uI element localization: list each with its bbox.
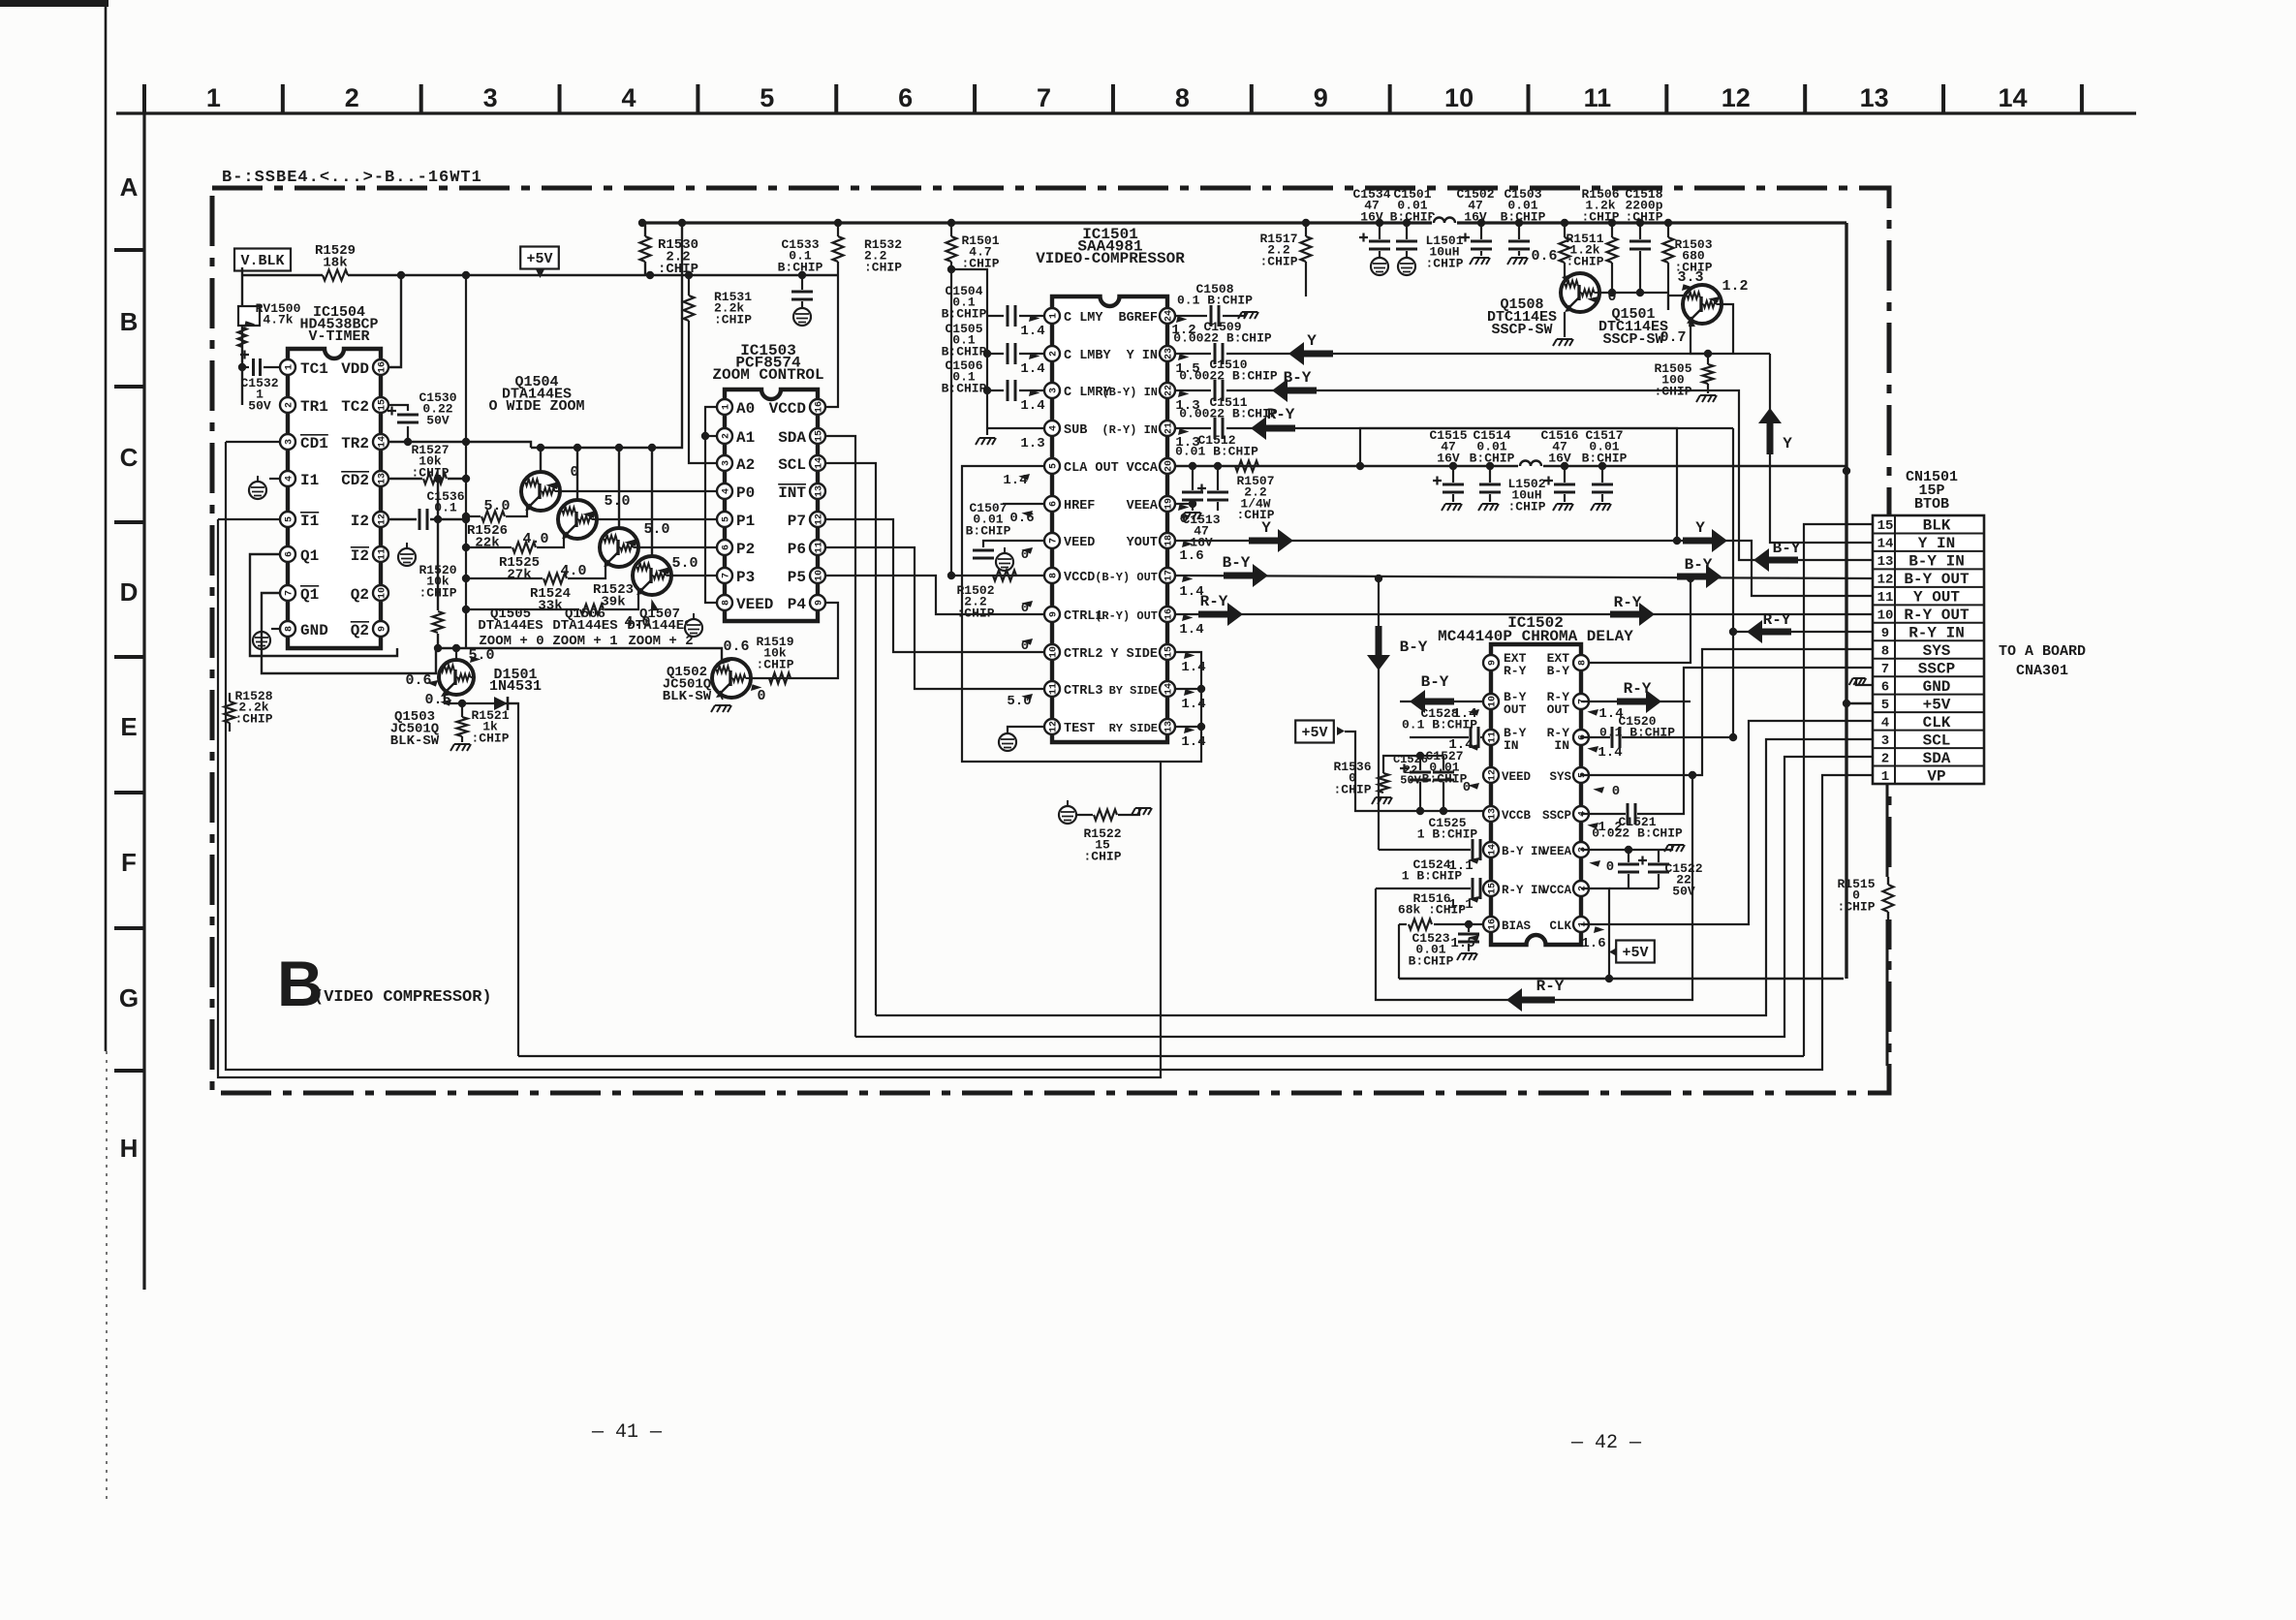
IC1501 pin 17 (B-Y) OUT: [1160, 568, 1175, 583]
svg-text:Y: Y: [1261, 519, 1271, 537]
svg-text:H: H: [120, 1134, 139, 1163]
wire VCCA pin2 to +5V: [1581, 888, 1609, 979]
svg-text:CD1: CD1: [300, 435, 328, 452]
svg-text:1N4531: 1N4531: [489, 678, 542, 695]
svg-text:0: 0: [1612, 784, 1620, 799]
svg-text:14: 14: [814, 457, 824, 469]
svg-text:R-Y OUT: R-Y OUT: [1904, 607, 1970, 624]
svg-text:VCCB: VCCB: [1502, 809, 1532, 823]
svg-text:R-Y: R-Y: [1267, 406, 1295, 423]
wire stub pin14 Y IN riser: [1770, 354, 1873, 543]
IC1501 pin 1 C LMY: [1044, 308, 1060, 324]
svg-text:10: 10: [1877, 608, 1894, 624]
wire HREF stub: [1003, 503, 1043, 505]
svg-text:0: 0: [1606, 859, 1614, 875]
svg-text:14: 14: [1877, 537, 1894, 552]
svg-text:2: 2: [1048, 351, 1059, 357]
connector CN1501 table: [1873, 515, 1984, 784]
svg-text:SCL: SCL: [1923, 732, 1951, 749]
svg-text:5: 5: [1048, 463, 1059, 469]
IC1503 pin 5 P1: [717, 512, 732, 527]
svg-text::CHIP: :CHIP: [411, 465, 449, 480]
svg-text::CHIP: :CHIP: [471, 731, 509, 745]
svg-text:0.5: 0.5: [424, 692, 450, 708]
svg-text:B: B: [120, 307, 139, 336]
IC1504 pin 4 I1: [280, 471, 295, 486]
svg-text:7: 7: [284, 590, 295, 596]
svg-text:P4: P4: [788, 596, 807, 613]
svg-text:15: 15: [1164, 646, 1174, 658]
svg-text:VIDEO-COMPRESSOR: VIDEO-COMPRESSOR: [1036, 250, 1185, 267]
svg-text:R-Y IN: R-Y IN: [1502, 884, 1545, 897]
page left border line: [105, 0, 108, 1051]
IC1503 pin 13 INT: [810, 483, 825, 499]
IC1502 pin 10 B-Y OUT: [1483, 694, 1499, 709]
svg-text:50V: 50V: [248, 398, 271, 413]
svg-text:1: 1: [206, 83, 221, 112]
svg-text:B-Y IN: B-Y IN: [1502, 845, 1545, 858]
svg-text:B-Y OUT: B-Y OUT: [1904, 571, 1970, 588]
wire Q1501 collector net: [1722, 304, 1733, 354]
svg-text:16V: 16V: [1437, 451, 1460, 465]
svg-text:SDA: SDA: [778, 429, 806, 447]
capacitor C1536: [389, 518, 417, 520]
svg-text:— 42 —: — 42 —: [1570, 1432, 1642, 1454]
inductor L1502: [1518, 458, 1543, 474]
resistor R1531: [688, 275, 690, 296]
svg-text:R-Y: R-Y: [1624, 680, 1652, 698]
resistor R1529: [323, 270, 348, 281]
resistor R1525: [466, 546, 512, 548]
svg-text:BLK-SW: BLK-SW: [390, 733, 440, 749]
svg-text::CHIP: :CHIP: [1333, 782, 1371, 796]
IC1503 pin 12 P7: [810, 512, 825, 527]
capacitor C1522 and VEEA: [1581, 849, 1659, 851]
IC1502 pin 7 R-Y OUT: [1573, 694, 1589, 709]
svg-text:0.1 B:CHIP: 0.1 B:CHIP: [1599, 726, 1675, 740]
IC1502 pin 15 R-Y IN: [1483, 881, 1499, 896]
svg-text:BTOB: BTOB: [1914, 496, 1949, 513]
IC1503 pin 1 A0: [717, 399, 732, 415]
CN1501 pin 5 +5V: [1873, 694, 1984, 696]
wire CLA OUT loop: [962, 466, 1201, 762]
svg-text:VEED: VEED: [1064, 536, 1095, 550]
svg-text:A1: A1: [736, 429, 755, 447]
resistor R1524: [466, 577, 543, 579]
wire VCCA distribution box: [1360, 428, 1677, 541]
svg-text:14: 14: [1164, 683, 1174, 695]
svg-text:— 41 —: — 41 —: [591, 1421, 663, 1444]
svg-text:(VIDEO COMPRESSOR): (VIDEO COMPRESSOR): [314, 988, 492, 1007]
IC1503 pin 11 P6: [810, 540, 825, 555]
resistor R1532: [837, 223, 839, 236]
svg-text:11: 11: [1048, 683, 1059, 695]
svg-text:8: 8: [1577, 660, 1588, 666]
svg-text:10: 10: [1048, 646, 1059, 658]
svg-text:5: 5: [1881, 698, 1889, 713]
svg-text:11: 11: [377, 548, 388, 560]
svg-text:16: 16: [1164, 608, 1174, 620]
resistor R1521: [461, 703, 463, 717]
svg-text:A0: A0: [736, 400, 755, 418]
wire bus SDA: [855, 757, 1873, 1037]
svg-text:BY SIDE: BY SIDE: [1109, 684, 1158, 698]
capacitor C1524 on B-Y IN pin14: [1379, 849, 1471, 851]
resistor R1502: [951, 575, 1043, 576]
svg-text:P6: P6: [788, 541, 806, 558]
capacitor on R-Y IN pin15: [1376, 888, 1471, 889]
svg-text::CHIP: :CHIP: [956, 606, 994, 620]
capacitor C1508: [1176, 315, 1207, 317]
svg-text:13: 13: [1164, 721, 1174, 732]
capacitor C1525: [1443, 756, 1444, 770]
resistor R1516: [1399, 923, 1407, 925]
power label +5V: [520, 247, 559, 269]
svg-text:SYS: SYS: [1923, 642, 1951, 660]
svg-text:0.6: 0.6: [723, 639, 749, 655]
wire P6 to CTRL3: [826, 547, 1045, 689]
svg-text:R-Y: R-Y: [1504, 664, 1527, 678]
wire Q1508 collector row: [1599, 292, 1668, 294]
svg-text:5.0: 5.0: [483, 498, 510, 514]
capacitor C1509 / Y in line: [1176, 353, 1211, 355]
svg-text:DTA144ES: DTA144ES: [478, 618, 543, 634]
svg-text:16: 16: [377, 361, 388, 373]
svg-text:ZOOM + 1: ZOOM + 1: [552, 634, 617, 649]
IC1501 pin 7 VEED: [1044, 533, 1060, 548]
svg-text:13: 13: [1487, 808, 1498, 820]
wire SDA net: [826, 436, 855, 1037]
svg-text:B:CHIP: B:CHIP: [1409, 953, 1454, 968]
svg-text:24: 24: [1164, 310, 1174, 322]
svg-text:8: 8: [721, 600, 731, 606]
svg-text:F: F: [121, 848, 137, 877]
resistor R1526: [466, 515, 481, 517]
IC1503 pin 10 P5: [810, 568, 825, 583]
IC1501 pin 24 BGREF: [1160, 308, 1175, 324]
IC1502 pin 1 CLK: [1573, 917, 1589, 932]
wire P7 to CTRL2: [826, 519, 1045, 652]
IC1504 pin 15 TC2: [373, 397, 388, 413]
top ruler ticks: [142, 84, 146, 113]
svg-text:12: 12: [814, 514, 824, 525]
svg-text:(R-Y) IN: (R-Y) IN: [1101, 423, 1158, 437]
svg-text:GND: GND: [1923, 678, 1951, 696]
svg-text:Y IN: Y IN: [1127, 349, 1158, 363]
svg-text:11: 11: [1584, 83, 1612, 112]
svg-text::CHIP: :CHIP: [1581, 209, 1619, 224]
IC1502 pin 2 VCCA: [1573, 881, 1589, 896]
svg-text::CHIP: :CHIP: [1083, 849, 1121, 863]
svg-text:B-:SSBE4.<...>-B..-16WT1: B-:SSBE4.<...>-B..-16WT1: [222, 169, 482, 187]
svg-text:Q1: Q1: [300, 586, 319, 604]
IC1501 pin 16 (R-Y) OUT: [1160, 607, 1175, 622]
svg-text:SDA: SDA: [1923, 750, 1951, 767]
IC1501 pin 9 CTRL1: [1044, 607, 1060, 622]
svg-text:1 B:CHIP: 1 B:CHIP: [1417, 827, 1478, 842]
svg-text:5: 5: [760, 83, 774, 112]
capacitor C1532: [242, 366, 249, 368]
svg-text:7: 7: [1881, 662, 1889, 677]
svg-text::CHIP: :CHIP: [714, 312, 752, 327]
svg-text:CLK: CLK: [1549, 919, 1571, 933]
wire +5V into IC1503 region: [689, 274, 838, 276]
svg-text:18: 18: [1164, 535, 1174, 546]
svg-text:1.4: 1.4: [1179, 622, 1203, 638]
transistor Q1505: [576, 448, 578, 500]
svg-text:1.4: 1.4: [1598, 706, 1623, 722]
svg-text:IN: IN: [1504, 738, 1519, 753]
svg-text:0: 0: [1463, 780, 1471, 795]
IC1503 pin 9 P4: [810, 595, 825, 610]
svg-text:TC1: TC1: [300, 360, 328, 378]
signal arrow Y out: [1249, 529, 1293, 552]
svg-text:10: 10: [1487, 696, 1498, 707]
IC1504 pin 14 TR2: [373, 434, 388, 450]
IC1503 pin 15 SDA: [810, 428, 825, 444]
IC1501 pin 2 C LMBY: [1044, 346, 1060, 361]
svg-text:4.7k: 4.7k: [263, 313, 293, 327]
svg-text:TR2: TR2: [341, 435, 369, 452]
capacitor C1507: [983, 541, 1043, 547]
wire bus SCL: [876, 739, 1873, 1015]
capacitor C1516: [1564, 466, 1566, 483]
IC1503 pin 2 A1: [717, 428, 732, 444]
svg-text:B:CHIP: B:CHIP: [942, 306, 987, 321]
svg-text:12: 12: [1877, 573, 1894, 588]
CN1501 pin 2 SDA: [1873, 747, 1984, 749]
IC1503 pin 4 P0: [717, 483, 732, 499]
IC1502 pin 14 B-Y IN: [1483, 842, 1499, 857]
svg-text:9: 9: [814, 600, 824, 606]
svg-text:1: 1: [284, 364, 295, 370]
capacitor C1511 / R-Y in line: [1176, 427, 1211, 429]
signal arrow B-Y out of IC1502: [1400, 701, 1483, 702]
svg-text:Y: Y: [1783, 435, 1792, 452]
svg-text:SYS: SYS: [1549, 770, 1571, 784]
svg-text:3: 3: [721, 460, 731, 466]
svg-text::CHIP: :CHIP: [1425, 256, 1463, 270]
svg-text:1.4: 1.4: [1181, 660, 1205, 675]
resistor R1506: [1611, 223, 1613, 237]
svg-text:0.1 B:CHIP: 0.1 B:CHIP: [1177, 294, 1253, 308]
svg-text::CHIP: :CHIP: [1566, 254, 1603, 268]
wire P5 to CTRL1: [826, 576, 1045, 614]
svg-text:B-Y: B-Y: [1223, 554, 1251, 572]
schematic dash-dot frame: [212, 188, 1889, 1093]
svg-text:GND: GND: [300, 622, 328, 639]
svg-text:9: 9: [1881, 626, 1889, 641]
svg-text:RY SIDE: RY SIDE: [1109, 722, 1158, 735]
IC1503 pin 6 P2: [717, 540, 732, 555]
svg-text:Y: Y: [1307, 332, 1317, 350]
svg-text:9: 9: [1487, 660, 1498, 666]
svg-text:+5V: +5V: [1301, 725, 1327, 741]
svg-text:11: 11: [1877, 590, 1894, 606]
svg-text:3: 3: [284, 439, 295, 445]
IC1504 pin 1 TC1: [280, 359, 295, 375]
resistor R1507: [1235, 461, 1258, 472]
svg-text:D: D: [120, 577, 139, 607]
svg-text:3.3: 3.3: [1677, 269, 1703, 286]
wire SYS net: [1581, 774, 1692, 776]
svg-text:I1: I1: [300, 472, 319, 489]
svg-text:12: 12: [377, 514, 388, 525]
left ruler line: [142, 84, 145, 1290]
IC1502 pin 3 VEEA: [1573, 842, 1589, 857]
IC1501 pin 5 CLA OUT: [1044, 458, 1060, 474]
capacitor C1521 on SSCP: [1581, 813, 1626, 815]
wire +5V top rail: [642, 221, 1846, 224]
svg-text:VEEA: VEEA: [1127, 499, 1159, 514]
capacitor C1510 / B-Y in line: [1176, 389, 1211, 391]
svg-text:R-Y: R-Y: [1614, 594, 1642, 611]
svg-text:TC2: TC2: [341, 398, 369, 416]
svg-text:13: 13: [814, 485, 824, 497]
svg-text:B:CHIP: B:CHIP: [966, 523, 1011, 538]
svg-text:1.4: 1.4: [1181, 734, 1205, 750]
IC1501 pin 10 CTRL2: [1044, 644, 1060, 660]
svg-text:(R-Y) OUT: (R-Y) OUT: [1095, 609, 1158, 623]
CN1501 pin 1 VP: [1873, 765, 1984, 767]
wire SCL net: [826, 463, 876, 1015]
svg-text:1.3: 1.3: [1020, 436, 1044, 452]
svg-text:12: 12: [1722, 83, 1751, 112]
IC1502 pin 8 EXT B-Y: [1573, 655, 1589, 670]
svg-text::CHIP: :CHIP: [1507, 499, 1545, 514]
IC1502 pin 4 SSCP: [1573, 806, 1589, 822]
capacitor C1518: [1639, 223, 1641, 239]
svg-text:I2: I2: [351, 547, 369, 565]
svg-text:7: 7: [1048, 538, 1059, 544]
signal arrow R-Y out 2: [1610, 603, 1655, 626]
wire R-Y IN vertical continues: [1732, 632, 1734, 737]
svg-text:R-Y: R-Y: [1200, 593, 1228, 610]
wire EXT B-Y pin8 up: [1590, 578, 1691, 663]
wire IC1504 pin7 Q1bar loop: [262, 593, 436, 673]
capacitor C1517: [1601, 466, 1603, 483]
wire YOUT: [1176, 541, 1873, 596]
svg-text:10: 10: [814, 570, 824, 581]
svg-text:10: 10: [1444, 83, 1474, 112]
svg-text:8: 8: [1175, 83, 1190, 112]
svg-text:17: 17: [1164, 570, 1174, 581]
IC1502 pin 11 B-Y IN: [1483, 730, 1499, 745]
svg-text:50V: 50V: [1672, 884, 1695, 898]
transistor Q1507: [651, 448, 653, 556]
svg-text:P1: P1: [736, 513, 755, 530]
CN1501 pin 13 B-Y IN: [1873, 550, 1984, 552]
resistor R1505: [1707, 354, 1709, 364]
svg-text:HREF: HREF: [1064, 499, 1095, 514]
svg-text:9: 9: [1314, 83, 1328, 112]
svg-text:8: 8: [284, 626, 295, 632]
svg-text:VCCD: VCCD: [769, 400, 806, 418]
signal arrow Y up: [1758, 408, 1782, 454]
resistor R1520: [437, 479, 439, 610]
svg-text:+5V: +5V: [1923, 696, 1951, 713]
svg-text:3: 3: [1048, 388, 1059, 393]
wire thick +5V vertical at connector: [1845, 223, 1847, 979]
ground at IC1504 pin8: [271, 628, 280, 630]
svg-text:16V: 16V: [1360, 209, 1383, 224]
wire bus VP: [226, 442, 1873, 1070]
svg-text:Q2: Q2: [351, 622, 369, 639]
svg-text:+5V: +5V: [1622, 945, 1648, 961]
IC1501 pin 6 HREF: [1044, 496, 1060, 512]
svg-text:P7: P7: [788, 513, 806, 530]
svg-text:0: 0: [1180, 512, 1188, 527]
resistor R1523: [466, 608, 579, 610]
svg-text:23: 23: [1164, 348, 1174, 359]
wire VDD riser: [389, 275, 401, 367]
wire base feed row: [438, 648, 722, 670]
resistor R1527: [389, 478, 422, 480]
resistor R1511: [1564, 223, 1566, 237]
capacitor C1523: [1468, 924, 1470, 932]
wire stub pin15 BLK: [1804, 524, 1873, 1056]
IC1501 pin 14 BY SIDE: [1160, 681, 1175, 697]
top ruler line: [116, 111, 2136, 114]
svg-text:B:CHIP: B:CHIP: [1501, 209, 1546, 224]
svg-text:5: 5: [721, 516, 731, 522]
svg-text:SCL: SCL: [778, 456, 806, 474]
IC1503 pin 3 A2: [717, 455, 732, 471]
signal arrow B-Y down into IC1502: [1378, 578, 1380, 850]
svg-text:0.6: 0.6: [1531, 248, 1557, 265]
resistor R1501: [950, 223, 952, 236]
wire collector rail of zoom cluster: [531, 447, 667, 449]
IC1501 pin 15 Y SIDE: [1160, 644, 1175, 660]
svg-text:9: 9: [377, 626, 388, 632]
svg-text:21: 21: [1164, 422, 1174, 434]
signal arrow B-Y out: [1224, 564, 1268, 587]
svg-text:OUT: OUT: [1547, 702, 1570, 717]
svg-text:INT: INT: [778, 484, 806, 502]
svg-text:B-Y IN: B-Y IN: [1908, 553, 1965, 571]
zoom cluster base lines to IC1503: [560, 490, 717, 492]
ground at GND pin6: [1856, 678, 1873, 685]
capacitor C1526: [1419, 756, 1421, 770]
svg-text:2: 2: [345, 83, 359, 112]
svg-text:14: 14: [377, 436, 388, 448]
IC1502 pin 6 R-Y IN: [1573, 730, 1589, 745]
svg-text:4: 4: [621, 83, 636, 112]
svg-text:O WIDE ZOOM: O WIDE ZOOM: [488, 398, 584, 415]
IC1501 pin 3 C LMRY: [1044, 383, 1060, 398]
transistor Q1504: [540, 448, 542, 472]
svg-text:4.0: 4.0: [522, 531, 548, 547]
wire V.BLK rail: [242, 274, 323, 276]
svg-text:C LMY: C LMY: [1064, 311, 1103, 326]
signal arrow B-Y in: [1272, 379, 1317, 402]
svg-text:I1: I1: [300, 513, 319, 530]
capacitor C1530: [389, 405, 408, 411]
svg-text:+5V: +5V: [526, 251, 552, 267]
transistor Q1502: [712, 659, 751, 698]
svg-text:0.6: 0.6: [405, 672, 431, 689]
decoupling caps C1504 C1505 C1506: [951, 269, 987, 435]
capacitor C1515: [1452, 466, 1454, 483]
svg-text:12: 12: [1487, 769, 1498, 781]
wire long vertical from V.BLK rail: [465, 275, 467, 648]
svg-text:A2: A2: [736, 456, 755, 474]
svg-text:1.2: 1.2: [1598, 820, 1622, 835]
svg-text:B:CHIP: B:CHIP: [1470, 451, 1515, 465]
svg-text:SSCP-SW: SSCP-SW: [1602, 331, 1663, 348]
IC1503 pin 14 SCL: [810, 455, 825, 471]
IC1504 pin 5 I1: [280, 512, 295, 527]
